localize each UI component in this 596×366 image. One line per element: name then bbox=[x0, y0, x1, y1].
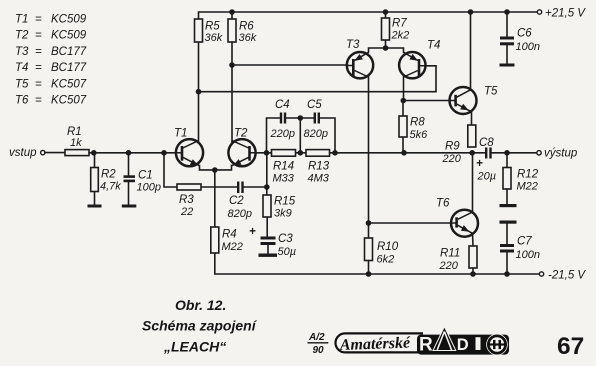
capacitor C8 bbox=[485, 148, 492, 159]
label R15 value 3k9 bbox=[274, 196, 296, 220]
svg-text:KC509: KC509 bbox=[51, 30, 87, 42]
transistor T5 bbox=[449, 87, 476, 114]
svg-text:36k: 36k bbox=[205, 32, 223, 44]
junction dot R13 right bbox=[332, 150, 338, 156]
resistor R7 bbox=[382, 18, 390, 40]
svg-text:KC507: KC507 bbox=[51, 95, 87, 107]
wire T6 collector up to output node bbox=[472, 153, 474, 212]
node label vystup bbox=[544, 148, 578, 160]
label R2 value 4,7k bbox=[100, 169, 121, 193]
capacitor C2 bbox=[237, 182, 244, 194]
svg-text:M22: M22 bbox=[517, 181, 538, 193]
svg-text:C2: C2 bbox=[229, 195, 244, 207]
junction dot C1 tap bbox=[126, 150, 132, 156]
label R6 value 36k bbox=[239, 21, 257, 45]
label R9 value 220 bbox=[442, 141, 462, 166]
resistor R2 bbox=[91, 168, 99, 192]
label T6 bbox=[436, 198, 450, 210]
wire T1 collector node to T4 base loop bbox=[199, 66, 437, 92]
label R4 value M22 bbox=[222, 229, 243, 254]
svg-text:Schéma zapojení: Schéma zapojení bbox=[142, 318, 258, 334]
svg-text:220: 220 bbox=[439, 260, 459, 272]
svg-text:T1: T1 bbox=[174, 128, 187, 140]
label R3 value 22 bbox=[179, 194, 194, 218]
svg-text:100n: 100n bbox=[516, 41, 540, 53]
wire R2 branch bbox=[94, 153, 96, 205]
junction dot R8 bottom bbox=[401, 150, 407, 156]
wire input to R1 bbox=[45, 152, 65, 154]
wire R14 to R13 bbox=[296, 152, 307, 154]
junction dot R3 tap bbox=[161, 150, 167, 156]
junction dot C6 top bbox=[504, 9, 510, 15]
svg-text:R4: R4 bbox=[222, 229, 237, 241]
svg-text:R: R bbox=[419, 335, 433, 356]
svg-text:T1: T1 bbox=[15, 14, 28, 26]
label C2 value 820p bbox=[228, 195, 252, 220]
junction dot R8 top / T5 base bbox=[401, 98, 407, 104]
wire T4 collector down to R8 node bbox=[403, 77, 405, 101]
svg-text:R14: R14 bbox=[273, 161, 294, 173]
label C7 value 100n bbox=[516, 236, 540, 262]
svg-text:=: = bbox=[35, 79, 42, 91]
resistor R11 bbox=[469, 246, 477, 268]
svg-text:R2: R2 bbox=[101, 169, 116, 181]
svg-text:50µ: 50µ bbox=[278, 246, 297, 258]
terminal -21.5V bbox=[539, 272, 543, 276]
wire C7 branch bbox=[506, 224, 508, 275]
resistor R9 bbox=[468, 125, 476, 147]
svg-text:R12: R12 bbox=[517, 169, 539, 181]
wire R8 node to C8 bbox=[404, 152, 485, 154]
junction dot T1 collector node bbox=[196, 89, 202, 95]
wire C1 branch bbox=[128, 153, 130, 205]
label C6 value 100n bbox=[516, 28, 540, 54]
transistor T2 bbox=[228, 139, 255, 166]
svg-text:BC177: BC177 bbox=[51, 62, 87, 74]
wire R4 to bottom rail bbox=[215, 253, 539, 274]
caption Obr. 12. bbox=[175, 297, 226, 313]
wire C3 to ground bar bbox=[267, 245, 269, 254]
capacitor C3 bbox=[261, 237, 276, 246]
junction dot T2 base / R14 bbox=[264, 150, 270, 156]
terminal +21.5V bbox=[537, 10, 541, 14]
label R11 value 220 bbox=[439, 248, 461, 273]
svg-text:=: = bbox=[35, 14, 42, 26]
resistor R8 bbox=[399, 116, 407, 137]
resistor R1 bbox=[65, 150, 89, 156]
svg-text:D: D bbox=[457, 336, 469, 354]
svg-text:C3: C3 bbox=[278, 233, 293, 245]
svg-text:6k2: 6k2 bbox=[377, 254, 395, 266]
svg-text:-21,5 V: -21,5 V bbox=[548, 270, 586, 282]
junction dot R7 top bbox=[383, 9, 389, 15]
wire R10 stubs bbox=[368, 223, 370, 274]
ground bar under C6 bbox=[500, 64, 515, 67]
wire T2 base to R14 bbox=[256, 152, 272, 154]
label C3 plus 50u bbox=[249, 226, 296, 258]
junction dot R9 bottom / T6 collector bbox=[469, 150, 475, 156]
svg-text:C6: C6 bbox=[517, 28, 532, 40]
junction dot R6 top bbox=[229, 9, 235, 15]
transistor T4 bbox=[399, 52, 425, 78]
wire R8 node to T5 base bbox=[403, 100, 450, 102]
junction dot R12 top bbox=[504, 150, 510, 156]
svg-text:=: = bbox=[35, 95, 42, 107]
svg-text:+: + bbox=[249, 226, 256, 238]
ground bar under C1 bbox=[122, 205, 137, 208]
svg-text:220: 220 bbox=[442, 153, 462, 165]
junction dot R1-R2 bbox=[91, 150, 97, 156]
svg-text:R7: R7 bbox=[392, 18, 407, 30]
svg-text:C4: C4 bbox=[275, 99, 290, 111]
svg-text:C1: C1 bbox=[138, 170, 153, 182]
svg-text:R3: R3 bbox=[179, 194, 194, 206]
svg-text:36k: 36k bbox=[239, 32, 257, 44]
junction dot R11 bottom rail bbox=[470, 271, 476, 277]
svg-text:T3: T3 bbox=[15, 46, 29, 58]
wire R7 bottom to T3 T4 emitters bbox=[369, 40, 404, 52]
svg-text:T2: T2 bbox=[234, 128, 248, 140]
label R12 value M22 bbox=[517, 169, 539, 193]
junction dot C7 bottom rail bbox=[504, 271, 510, 277]
svg-text:M33: M33 bbox=[273, 173, 295, 185]
junction dot R10 bottom rail bbox=[366, 271, 372, 277]
wire T6 emitter to R11 bbox=[472, 233, 475, 274]
resistor R4 bbox=[211, 227, 219, 253]
svg-text:T4: T4 bbox=[15, 62, 28, 74]
svg-text:220p: 220p bbox=[270, 128, 295, 140]
wire C6 branch bbox=[506, 12, 508, 64]
svg-text:T6: T6 bbox=[15, 95, 29, 107]
junction dot R10 top / T6 base bbox=[366, 220, 372, 226]
svg-text:T5: T5 bbox=[15, 79, 29, 91]
svg-text:vstup: vstup bbox=[9, 147, 37, 159]
svg-text:22: 22 bbox=[180, 206, 193, 218]
svg-text:Amatérské: Amatérské bbox=[339, 335, 412, 355]
label C1 value 100p bbox=[137, 170, 161, 194]
svg-text:KC507: KC507 bbox=[51, 79, 87, 91]
wire T2 collector node to T3 base bbox=[232, 64, 348, 66]
wire T3 collector down to T6 base node bbox=[368, 77, 370, 223]
label R5 value 36k bbox=[205, 21, 223, 45]
ground bar above C7 bbox=[500, 221, 517, 224]
svg-text:A/2: A/2 bbox=[308, 332, 325, 343]
resistor R5 bbox=[195, 19, 203, 42]
label R10 value 6k2 bbox=[377, 241, 399, 266]
label R1 value 1k bbox=[67, 126, 82, 149]
svg-text:R10: R10 bbox=[377, 241, 399, 253]
wire R13 to R8 node bbox=[330, 152, 405, 154]
svg-text:2k2: 2k2 bbox=[391, 30, 410, 42]
svg-text:R8: R8 bbox=[410, 117, 425, 129]
label R14 value M33 bbox=[273, 161, 295, 185]
wire T5 emitter to R9 bbox=[471, 112, 473, 125]
svg-text:C7: C7 bbox=[517, 236, 532, 248]
resistor R3 bbox=[177, 184, 201, 190]
svg-text:3k9: 3k9 bbox=[274, 208, 292, 220]
svg-text:100p: 100p bbox=[137, 182, 161, 194]
svg-text:T4: T4 bbox=[427, 40, 440, 52]
svg-text:+21,5 V: +21,5 V bbox=[545, 8, 586, 20]
svg-text:1k: 1k bbox=[70, 137, 82, 149]
svg-text:C8: C8 bbox=[479, 137, 494, 149]
svg-text:R9: R9 bbox=[445, 141, 460, 153]
svg-text:100n: 100n bbox=[516, 249, 540, 261]
wire emitter node to R4 bbox=[214, 170, 216, 227]
wire T1 T2 emitters junction bbox=[200, 166, 232, 170]
label T1 bbox=[174, 128, 187, 140]
svg-text:90: 90 bbox=[313, 345, 325, 356]
label T5 bbox=[484, 86, 498, 98]
label R8 value 5k6 bbox=[410, 117, 429, 142]
svg-text:M22: M22 bbox=[222, 241, 243, 253]
junction dot R14-R13 bbox=[298, 150, 304, 156]
label C8 plus 20u bbox=[476, 137, 496, 183]
label C4 value 220p bbox=[270, 99, 295, 140]
wire R6 top stub bbox=[231, 12, 233, 19]
capacitor C5 bbox=[314, 113, 320, 124]
wire top rail +21.5V bbox=[199, 12, 538, 19]
svg-text:R11: R11 bbox=[440, 248, 460, 260]
wire R7 top stub bbox=[385, 12, 387, 18]
wire R8 bottom stub bbox=[402, 101, 404, 154]
svg-text:výstup: výstup bbox=[544, 148, 578, 160]
svg-text:67: 67 bbox=[557, 333, 584, 360]
capacitor C4 bbox=[280, 113, 286, 124]
svg-text:=: = bbox=[35, 30, 42, 42]
ground bar under R12 bbox=[500, 204, 517, 207]
label T4 bbox=[427, 40, 440, 52]
transistor type list bbox=[15, 14, 87, 107]
svg-text:T6: T6 bbox=[436, 198, 450, 210]
label R13 value 4M3 bbox=[308, 161, 330, 185]
junction dot C4-C5 mid bbox=[298, 115, 304, 121]
svg-text:820p: 820p bbox=[228, 208, 252, 220]
page number 67 bbox=[557, 333, 584, 360]
label T3 bbox=[346, 39, 360, 51]
svg-text:T3: T3 bbox=[346, 39, 360, 51]
resistor R6 bbox=[228, 19, 236, 42]
svg-text:C5: C5 bbox=[307, 99, 322, 111]
label T2 bbox=[234, 128, 248, 140]
ground bar under C3 bbox=[259, 254, 278, 257]
svg-text:=: = bbox=[35, 46, 42, 58]
capacitor C6 bbox=[500, 37, 514, 46]
svg-text:R6: R6 bbox=[239, 21, 254, 33]
junction dot T3 base node bbox=[229, 62, 235, 68]
net label -21,5 V bbox=[548, 270, 586, 282]
junction dot C2-R15 bbox=[264, 184, 270, 190]
label C5 value 820p bbox=[304, 99, 328, 140]
svg-text:R13: R13 bbox=[308, 161, 330, 173]
ground bar under R2 bbox=[88, 205, 102, 208]
svg-text:KC509: KC509 bbox=[51, 14, 87, 26]
wire R15 branch down from mid rail bbox=[266, 153, 268, 237]
wire R6 bottom to T2 collector bbox=[231, 42, 233, 142]
svg-text:T5: T5 bbox=[484, 86, 498, 98]
svg-text:Obr. 12.: Obr. 12. bbox=[175, 297, 226, 313]
transistor T6 bbox=[451, 210, 478, 237]
svg-text:„LEACH“: „LEACH“ bbox=[163, 339, 226, 355]
wire R12 branch bbox=[506, 153, 508, 204]
resistor R13 bbox=[306, 150, 330, 157]
junction dot T5 collector top bbox=[468, 9, 474, 15]
junction dot emitter node T3 T4 bbox=[383, 45, 389, 51]
svg-text:+: + bbox=[476, 158, 483, 170]
resistor R14 bbox=[272, 150, 296, 157]
wire T5 collector to top rail bbox=[470, 12, 472, 90]
terminal vystup bbox=[537, 151, 541, 155]
svg-text:=: = bbox=[35, 62, 42, 74]
resistor R15 bbox=[263, 195, 271, 217]
svg-text:R5: R5 bbox=[205, 21, 220, 33]
terminal vstup bbox=[41, 150, 45, 154]
wire R1 to T1 base bbox=[89, 152, 176, 154]
svg-text:BC177: BC177 bbox=[51, 46, 87, 58]
net label +21,5 V bbox=[545, 8, 586, 20]
transistor T1 bbox=[176, 139, 203, 166]
label R7 value 2k2 bbox=[391, 18, 410, 42]
resistor R12 bbox=[503, 168, 511, 190]
transistor T3 bbox=[347, 52, 373, 78]
wire R5 bottom to T1 collector bbox=[198, 42, 200, 141]
issue number A/2 90 bbox=[308, 332, 329, 356]
resistor R10 bbox=[365, 238, 373, 261]
svg-text:5k6: 5k6 bbox=[410, 129, 429, 141]
capacitor C7 bbox=[500, 244, 514, 253]
logo Amaterske RADIO bbox=[336, 327, 510, 356]
wire R3 C2 feedback branch bbox=[164, 153, 267, 187]
svg-text:820p: 820p bbox=[304, 128, 328, 140]
caption LEACH bbox=[163, 339, 226, 355]
junction dot T1 T2 emitters bbox=[212, 167, 218, 173]
svg-text:T2: T2 bbox=[15, 30, 29, 42]
svg-text:R15: R15 bbox=[274, 196, 296, 208]
wire C8 to output bbox=[492, 152, 537, 154]
svg-text:4,7k: 4,7k bbox=[100, 181, 121, 193]
svg-text:4M3: 4M3 bbox=[308, 173, 330, 185]
capacitor C1 bbox=[124, 175, 136, 182]
wire C4 C5 branch bbox=[267, 118, 336, 153]
caption Schema zapojeni bbox=[142, 318, 258, 334]
node label vstup bbox=[9, 147, 37, 159]
svg-text:20µ: 20µ bbox=[477, 171, 497, 183]
wire T6 base bbox=[369, 222, 452, 224]
